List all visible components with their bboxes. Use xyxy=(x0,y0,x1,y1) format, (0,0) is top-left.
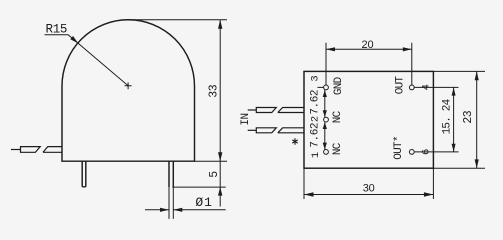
svg-text:23: 23 xyxy=(462,110,475,123)
dimension 23 xyxy=(433,71,485,168)
svg-text:Ø1: Ø1 xyxy=(195,195,212,210)
pin pitch chain dimension 7.62 lower xyxy=(324,122,326,149)
svg-text:IN: IN xyxy=(240,113,252,125)
dimension 20 xyxy=(326,43,412,85)
body outline left view xyxy=(62,20,195,161)
pin 1 NC xyxy=(324,150,329,155)
wire IN upper right view xyxy=(248,108,304,113)
svg-text:30: 30 xyxy=(363,182,375,194)
svg-text:2: 2 xyxy=(310,116,322,122)
svg-text:7.62: 7.62 xyxy=(310,123,322,148)
label NC pin1 xyxy=(332,142,344,155)
svg-text:OUT*: OUT* xyxy=(393,136,405,160)
pin 2 NC xyxy=(324,117,329,122)
svg-text:NC: NC xyxy=(332,142,344,155)
dimension 33 xyxy=(128,20,228,207)
pin number 6 xyxy=(420,149,432,155)
svg-text:NC: NC xyxy=(332,110,344,123)
pin number 3 xyxy=(310,75,322,81)
pin number 4 xyxy=(420,84,432,90)
polarity mark * xyxy=(292,138,297,144)
label NC pin2 xyxy=(332,110,344,123)
svg-text:4: 4 xyxy=(420,84,432,90)
pin number 1 xyxy=(310,152,322,158)
wire IN lower right view xyxy=(248,128,304,133)
svg-text:5: 5 xyxy=(208,171,221,178)
dimension 5 (lead length) xyxy=(172,186,225,188)
tick at pin 3 xyxy=(318,86,324,88)
pin P2 left view (dimensioned lead) xyxy=(169,161,173,187)
dimension 30 xyxy=(304,168,433,199)
svg-text:20: 20 xyxy=(361,39,373,51)
pin P1 left view (short lead) xyxy=(82,161,86,187)
svg-text:1: 1 xyxy=(310,152,322,158)
label R15 xyxy=(46,23,68,37)
body outline right view xyxy=(304,71,433,168)
pin 6 OUT* xyxy=(409,150,414,155)
label OUT xyxy=(395,75,407,94)
svg-text:7.62: 7.62 xyxy=(310,90,322,115)
dimension 15.24 xyxy=(414,87,459,151)
pin 4 OUT xyxy=(409,85,414,90)
label IN xyxy=(240,113,252,125)
label OUT* xyxy=(393,136,405,160)
svg-text:33: 33 xyxy=(207,84,220,97)
pin 3 GND xyxy=(324,85,329,90)
svg-text:15. 24: 15. 24 xyxy=(442,98,454,134)
svg-text:GND: GND xyxy=(333,76,345,95)
svg-text:6: 6 xyxy=(420,149,432,155)
label GND xyxy=(333,76,345,95)
pin number 2 xyxy=(310,116,322,122)
svg-text:OUT: OUT xyxy=(395,75,407,94)
dimension R15 leader xyxy=(45,35,129,86)
svg-text:3: 3 xyxy=(310,75,322,81)
wire lead-out left view xyxy=(11,147,62,153)
pin pitch chain dimension 7.62 upper xyxy=(324,90,326,118)
svg-text:R15: R15 xyxy=(46,23,68,37)
dimension Ø1 (lead diameter) xyxy=(145,187,226,219)
center mark of radius R15 xyxy=(125,82,132,89)
arrowhead R15 xyxy=(70,36,78,43)
